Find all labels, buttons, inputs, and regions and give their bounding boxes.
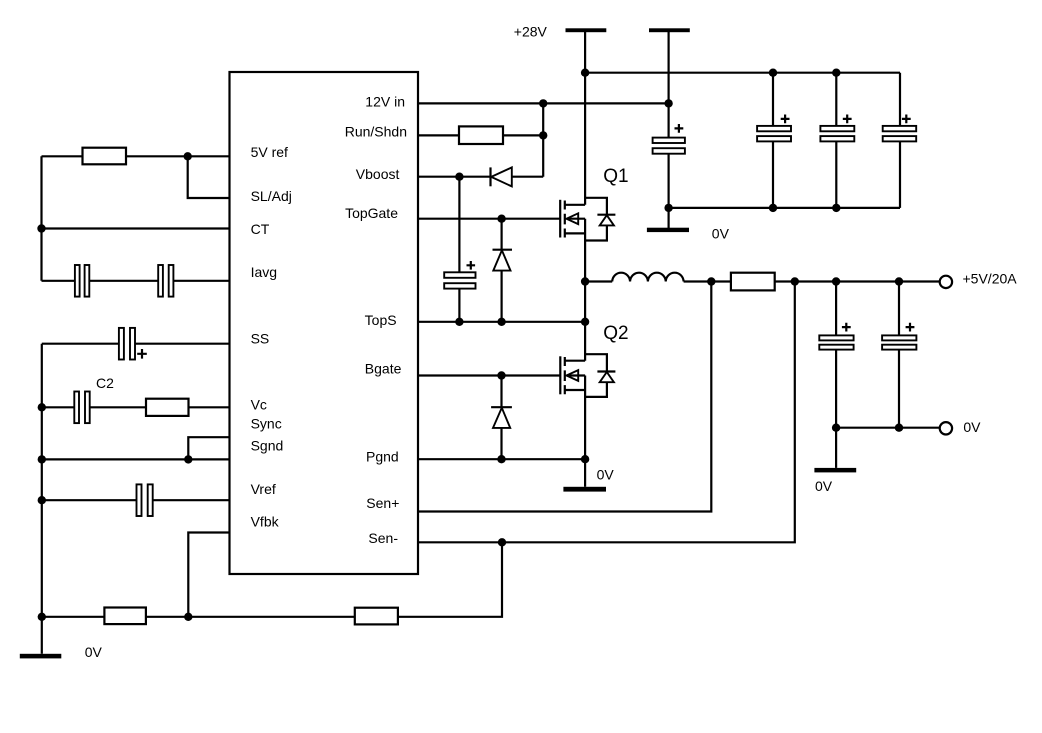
svg-text:12V in: 12V in [365,93,405,109]
svg-text:Vc: Vc [251,396,267,412]
power bar +28V right [649,28,690,32]
node Pgnd switch junction [581,455,589,463]
capacitor C boost [458,177,460,322]
polarity plus of input bulk cap [675,124,684,133]
node 12Vin/boost junction [539,99,547,107]
wire output to sense resistor [684,280,940,282]
svg-text:0V: 0V [597,466,615,482]
wire Vfbk branch [188,533,229,617]
svg-text:Bgate: Bgate [365,361,402,377]
svg-text:0V: 0V [712,226,730,242]
wire Vref pin [42,499,230,501]
wire bottom feedback [42,542,502,617]
node switch/inductor junction [581,277,589,285]
svg-text:TopS: TopS [365,312,397,328]
node TopGate junction [497,215,505,223]
node rail cap1 junction [769,69,777,77]
node bottom left junction [38,613,46,621]
wire left rail upper [40,156,42,280]
resistor R bottom-left [104,608,145,625]
node output 0V cap1 junction [832,424,840,432]
resistor R sense [731,273,775,291]
svg-text:Sen+: Sen+ [366,495,399,511]
resistor R Run/Shdn [459,126,503,144]
polarity plus of output cap 2 [906,323,915,332]
wire TopGate pin [418,218,560,220]
wire Run/Shdn pin [418,134,543,136]
svg-text:Vfbk: Vfbk [251,514,280,530]
svg-text:Sync: Sync [251,416,282,432]
svg-text:SS: SS [251,331,270,347]
svg-text:Sgnd: Sgnd [251,437,284,453]
diode D1 boost [489,167,491,186]
svg-text:Q1: Q1 [603,166,628,187]
wire 12V in pin [418,102,669,104]
capacitor C input 2 [835,73,837,208]
node Vc junction [38,403,46,411]
svg-text:0V: 0V [815,478,833,494]
node output cap1 junction [832,277,840,285]
svg-text:Vboost: Vboost [356,166,400,182]
resistor R on Vc [146,399,189,416]
wire Sync branch [188,437,229,459]
capacitor C on Iavg right [158,265,163,297]
node sense/Sen- junction [791,277,799,285]
wire output ground stub [835,428,837,468]
resistor R1 on 5V ref [83,148,127,165]
node Vfbk/bottom junction [184,613,192,621]
op-amp U1 controller IC box [230,72,419,574]
capacitor C output 2 [898,282,900,428]
wire left rail lower [41,344,43,654]
capacitor C input 1 [772,73,774,208]
wire Pgnd ground stub [584,459,586,487]
polarity plus of boost cap [467,261,476,270]
wire Iavg pin [42,280,230,282]
svg-text:Pgnd: Pgnd [366,448,399,464]
svg-text:C2: C2 [96,375,114,391]
ground signal [20,654,62,659]
ground output [814,468,856,473]
wire 5V ref pin [42,155,230,157]
wire Vboost pin [418,176,543,178]
wire Q2 source to Pgnd [584,376,586,460]
inductor L1 [585,273,683,282]
node CT junction [37,224,45,232]
capacitor C on Vref [137,484,142,516]
node Sen-/feedback junction [498,538,506,546]
capacitor C2 [74,392,79,424]
svg-text:Vref: Vref [251,481,276,497]
node rail/drop junction [581,69,589,77]
wire CT pin [42,227,230,229]
svg-text:Iavg: Iavg [251,264,277,280]
node input cap2 0V junction [832,204,840,212]
node input cap1 0V junction [769,204,777,212]
polarity plus of input cap 3 [902,115,911,124]
wire switch node [584,219,586,361]
svg-text:+5V/20A: +5V/20A [963,271,1018,287]
svg-text:TopGate: TopGate [345,205,398,221]
wire Sen- pin [418,282,795,543]
node TopS boost-cap junction [455,318,463,326]
node Bgate junction [497,371,505,379]
node TopS diode junction [497,318,505,326]
svg-text:0V: 0V [963,419,981,435]
wire input 0V return [669,207,900,209]
node TopS switch junction [581,318,589,326]
resistor R bottom-mid [355,608,398,625]
svg-text:Sen-: Sen- [368,530,398,546]
node Sync/Sgnd junction [184,455,192,463]
node 12Vin/input-cap junction [664,99,672,107]
ground input [647,228,689,232]
node Vboost junction [455,173,463,181]
diode D2 topgate clamp [501,219,503,322]
capacitor C input 3 [899,73,901,208]
transistor Q2 [560,354,615,397]
node inductor/Sen+ junction [707,277,715,285]
wire 28V rail horizontal [585,72,900,74]
node output 0V cap2 junction [895,424,903,432]
wire Sen+ pin [418,282,711,512]
svg-text:Run/Shdn: Run/Shdn [345,124,407,140]
polarity plus of input cap 2 [843,115,852,124]
capacitor C soft-start [119,328,124,360]
terminal 0V output [940,422,952,434]
node Vref junction [38,496,46,504]
node Sgnd left junction [38,455,46,463]
node Pgnd diode junction [497,455,505,463]
wire Bgate pin [418,374,560,376]
diode D3 bgate clamp [500,376,502,460]
wire 28V drop to Q1 [584,32,586,205]
polarity plus of SS cap [137,349,147,359]
node rail cap2 junction [832,69,840,77]
wire boost feed vertical [542,103,544,176]
svg-text:+28V: +28V [514,23,548,39]
polarity plus of input cap 1 [781,115,790,124]
node Run resistor junction [539,131,547,139]
power bar +28V left [566,28,607,32]
svg-text:5V ref: 5V ref [251,144,288,160]
capacitor C output 1 [835,282,837,428]
polarity plus of output cap 1 [842,323,851,332]
svg-text:CT: CT [251,221,270,237]
wire SL/Adj branch [188,156,230,198]
capacitor C input bulk [667,32,669,228]
wire TopS pin [418,321,585,323]
node output cap2 junction [895,277,903,285]
capacitor C on Iavg left [75,265,80,297]
wire Pgnd pin [418,458,585,460]
node bulk cap 0V junction [664,204,672,212]
terminal +5V output [940,276,952,288]
ground power stage [563,487,606,492]
node junction 5Vref/SLAdj [184,152,192,160]
svg-text:SL/Adj: SL/Adj [251,188,292,204]
wire Sgnd pin [42,458,230,460]
wire output 0V [836,427,940,429]
wire SS pin [42,343,230,345]
wire Vc pin [42,406,230,408]
svg-text:0V: 0V [85,644,103,660]
svg-text:Q2: Q2 [603,323,628,344]
transistor Q1 [560,198,615,241]
